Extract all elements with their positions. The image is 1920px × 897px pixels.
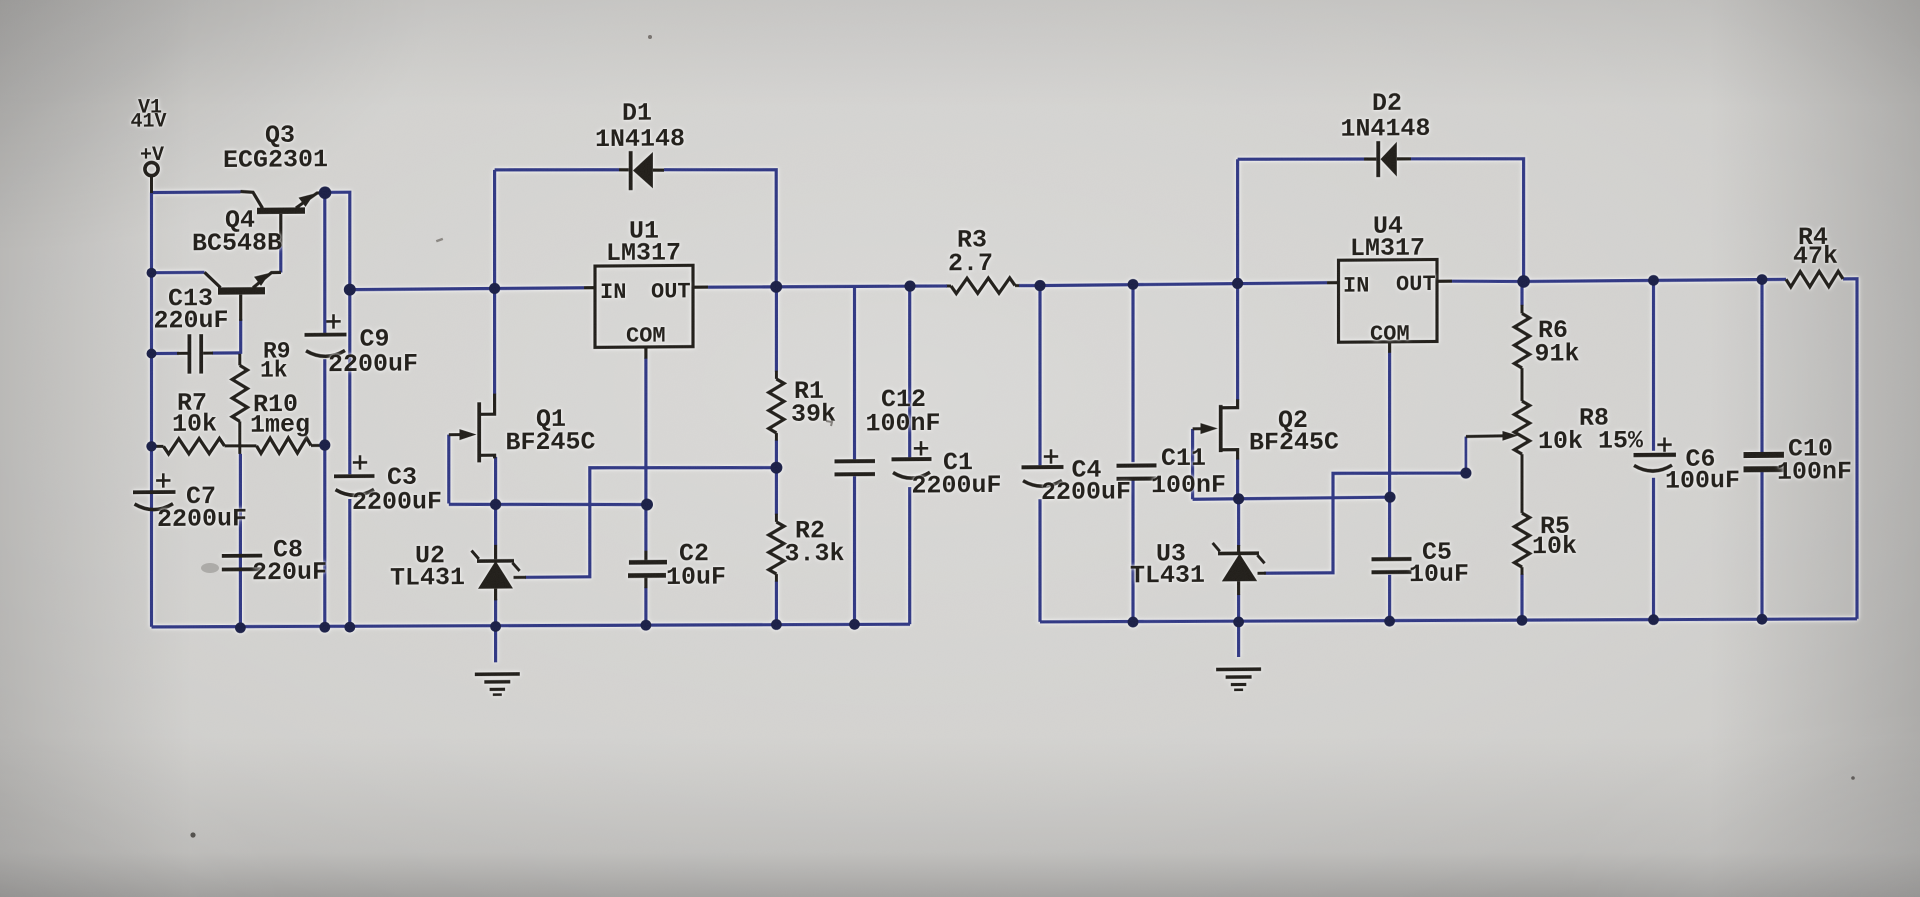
- wire R6 upper lead: [1520, 281, 1523, 305]
- capacitor C6 plate: [1634, 453, 1677, 458]
- wire Q2 source down: [1236, 459, 1239, 499]
- resistor R4 zigzag: [1786, 271, 1843, 287]
- potentiometer R8 wiper lead: [1466, 434, 1505, 438]
- transistor Q4 emitter lead: [253, 272, 281, 287]
- wire Q2 node to U3: [1237, 499, 1240, 546]
- diode D2 leads: [1364, 157, 1376, 160]
- resistor R9 zigzag: [232, 365, 247, 421]
- wire D1 top left: [495, 169, 619, 171]
- wire rail B R3 to U4 IN: [1038, 283, 1327, 286]
- resistor R6 stubs: [1521, 305, 1524, 314]
- wire bottom rail left stage: [152, 621, 911, 630]
- node D2 Q2 rail junction: [1232, 278, 1243, 289]
- transistor Q3 collector lead: [241, 191, 263, 208]
- shunt ref U2 wings: [472, 550, 479, 559]
- capacitor C13 plates: [188, 334, 192, 373]
- resistor R10 zigzag: [257, 438, 312, 454]
- shunt ref U2 ref lead: [514, 576, 527, 579]
- jfet Q1 drain lead: [480, 394, 495, 415]
- resistor R1 zigzag: [769, 379, 784, 433]
- node Q3 emitter junction: [319, 186, 332, 199]
- node bottom rail U3 ground: [1233, 616, 1244, 627]
- resistor R3 leads: [946, 284, 951, 287]
- node Q2 row COM junction: [1384, 491, 1395, 502]
- node C3 branch rail junction: [344, 284, 356, 296]
- wire U2 anode to rail/ground: [494, 599, 497, 663]
- shunt ref U2 TL431 cathode bar: [477, 559, 514, 563]
- wire R1 lower to R2 upper: [775, 440, 778, 515]
- wire D1 top right: [664, 169, 776, 288]
- ic U4 IN lead: [1327, 281, 1339, 284]
- wire C4 branch lower: [1038, 499, 1041, 622]
- capacitor C4 curved plate: [1023, 480, 1062, 486]
- wire R8 wiper riser: [1465, 437, 1468, 474]
- capacitor C1 curved plate: [893, 472, 930, 478]
- jfet Q2 source lead: [1220, 450, 1238, 460]
- jfet Q1 channel: [477, 402, 481, 462]
- node R8 wiper junction: [1460, 467, 1471, 478]
- capacitor C3 plate: [334, 474, 375, 478]
- diode D2 cathode bar: [1376, 141, 1380, 177]
- node bottom rail R5: [1517, 615, 1528, 626]
- wire C3 branch upper: [348, 290, 351, 475]
- capacitor C3 plus: [353, 461, 367, 464]
- wire R2 lower lead: [775, 581, 778, 625]
- resistor R6 zigzag: [1514, 313, 1529, 368]
- capacitor C12 plates: [835, 459, 876, 463]
- wire R1 upper lead: [775, 287, 778, 372]
- ic U1 OUT lead: [693, 285, 708, 288]
- dust speck top middle: [648, 35, 652, 39]
- wire R3 left lead: [912, 284, 947, 288]
- wire rail OUT to R4: [1524, 279, 1786, 281]
- node bottom rail C5: [1384, 616, 1395, 627]
- wire D2 left riser: [1236, 159, 1239, 283]
- wire Q2 source row to COM: [1193, 497, 1390, 499]
- ic U1 LM317 box: [595, 265, 693, 347]
- capacitor C1 plus: [914, 447, 928, 450]
- node Q1 source COM junction: [641, 499, 653, 511]
- capacitor C1 plate: [892, 457, 932, 461]
- wire U1 OUT rail to R3: [708, 286, 912, 288]
- wire node to C3 branch corner: [325, 192, 350, 290]
- wire C12 branch upper: [853, 286, 856, 459]
- resistor R1 stubs: [775, 371, 778, 379]
- node C11 rail junction: [1128, 279, 1139, 290]
- potentiometer R8 zigzag: [1514, 401, 1529, 454]
- terminal V1 +V: [145, 162, 158, 175]
- resistor R2 zigzag: [769, 522, 784, 574]
- node bottom rail C3 line: [344, 622, 355, 633]
- capacitor C10 plates: [1744, 452, 1785, 458]
- wire C11 branch upper: [1131, 284, 1134, 462]
- transistor Q4 emitter arrow: [254, 273, 270, 286]
- wire U3 ref run: [1264, 472, 1466, 573]
- wire Q4 base to C13/R9 node: [239, 319, 242, 354]
- wire left +V rail: [150, 193, 153, 627]
- node bottom rail C6: [1648, 614, 1659, 625]
- capacitor C9 curved plate: [306, 350, 345, 356]
- resistor R5 stubs: [1521, 454, 1524, 513]
- node bottom rail C2: [641, 620, 652, 631]
- capacitor C7 plate: [133, 490, 176, 494]
- jfet Q1 source lead: [480, 455, 495, 458]
- shunt ref U2 cathode stub: [494, 545, 497, 559]
- transistor Q3 emitter lead: [296, 193, 326, 208]
- node bottom rail C9 line: [319, 622, 330, 633]
- diode D1 cathode bar: [629, 151, 633, 190]
- wire Q1 gate: [447, 435, 450, 504]
- resistor R10 right lead: [311, 444, 325, 447]
- diode D1 leads: [619, 168, 629, 171]
- capacitor C7 curved plate: [135, 504, 174, 510]
- dust speck near C12 label: [826, 421, 832, 426]
- transistor Q3 base stub: [279, 214, 282, 248]
- shunt ref U2 triangle: [478, 561, 513, 589]
- jfet Q2 gate lead: [1193, 427, 1202, 430]
- node Q2 source junction: [1233, 493, 1244, 504]
- jfet Q1 gate lead: [449, 433, 461, 436]
- capacitor C5 plates: [1372, 557, 1412, 561]
- node R3 right junction: [1034, 280, 1045, 291]
- dust speck bottom left: [190, 832, 195, 837]
- wire C6 branch upper: [1652, 280, 1655, 450]
- wire U3 anode to rail/ground: [1237, 595, 1240, 658]
- wire R3 right lead: [1019, 284, 1038, 287]
- capacitor C2 stubs: [644, 551, 647, 560]
- wire R9 to C8 to bottom rail: [239, 454, 242, 628]
- shunt ref U2 anode stub: [494, 589, 497, 601]
- wire Q3 base to Q4 emitter: [279, 247, 282, 273]
- node R3 left junction: [904, 280, 915, 291]
- wire C10 branch lower: [1760, 472, 1763, 619]
- node bottom rail C11: [1128, 617, 1139, 628]
- wire Q2 drain from rail: [1236, 283, 1239, 400]
- capacitor C7 plus: [156, 479, 170, 482]
- capacitor C6 plus: [1657, 443, 1671, 446]
- wire U4 OUT: [1452, 281, 1524, 282]
- capacitor C9 plate: [305, 333, 347, 337]
- wire U4 COM to C5: [1388, 353, 1391, 558]
- node bottom rail U2 ground: [490, 621, 501, 632]
- ground symbol left: [475, 672, 520, 676]
- shunt ref U3 wings: [1213, 543, 1220, 552]
- ic U4 LM317 box: [1339, 259, 1438, 342]
- jfet Q2 drain lead: [1220, 399, 1238, 407]
- shunt ref U3 triangle: [1222, 553, 1257, 581]
- capacitor C8 plates: [222, 554, 262, 558]
- wire C1 branch upper: [908, 286, 911, 457]
- capacitor C9 plus: [326, 320, 340, 323]
- wire Q2 gate: [1191, 429, 1194, 499]
- wire main rail to U1 IN: [350, 288, 584, 290]
- jfet Q2 gate arrow: [1201, 423, 1218, 434]
- wire C1 branch lower: [908, 487, 911, 624]
- wire bottom rail right stage: [1040, 615, 1857, 625]
- wire C13 right lead to R9 node: [212, 351, 241, 354]
- jfet Q2 channel: [1219, 405, 1223, 452]
- wire V1 feed to Q3: [152, 190, 241, 194]
- ic U4 OUT lead: [1437, 280, 1452, 283]
- node bottom rail R2: [771, 619, 782, 630]
- wire C11 branch lower: [1131, 477, 1134, 622]
- capacitor C4 plus: [1044, 455, 1058, 458]
- wire R5 lower lead: [1520, 574, 1523, 621]
- node bottom rail C8: [235, 622, 246, 633]
- jfet Q1 gate arrow: [460, 429, 477, 440]
- resistor R7 leads: [152, 445, 164, 448]
- dust speck near Q3: [436, 238, 443, 243]
- resistor R7 zigzag: [164, 438, 225, 454]
- node R7 rail junction: [146, 441, 156, 451]
- transistor Q4 base stub: [239, 295, 242, 321]
- resistor R2 stubs: [775, 514, 778, 522]
- wire D2 top right: [1411, 158, 1524, 282]
- wire C13 left lead: [152, 352, 180, 355]
- resistor R5 zigzag: [1514, 513, 1529, 567]
- wire Q1 source to U2: [494, 457, 497, 546]
- ic U4 COM lead: [1388, 342, 1391, 353]
- ground symbol right: [1216, 667, 1261, 671]
- capacitor C3 curved plate: [336, 489, 375, 495]
- capacitor C11 plates: [1117, 463, 1157, 467]
- node R1 R2 divider junction: [770, 462, 782, 474]
- wire C2 to bottom rail: [644, 587, 647, 625]
- node C10 rail junction: [1757, 274, 1768, 285]
- capacitor C4 plate: [1022, 465, 1064, 469]
- wire C5 to bottom rail: [1388, 575, 1391, 621]
- smudge near C8: [201, 563, 219, 573]
- wire C4 branch upper: [1038, 286, 1041, 466]
- capacitor C6 curved plate: [1634, 465, 1672, 471]
- shunt ref U3 cathode bar: [1218, 551, 1259, 555]
- transistor Q3 base bar: [257, 207, 305, 214]
- wire U1 COM to C2: [644, 358, 647, 551]
- wire Q1 source row: [449, 503, 647, 506]
- shunt ref U3 cathode stub: [1237, 545, 1240, 552]
- wire R4 to right corner: [1843, 279, 1857, 619]
- dust speck bottom right: [1851, 776, 1855, 780]
- resistor R9 leads: [238, 354, 241, 366]
- diode D1 triangle: [633, 152, 653, 189]
- wire C12 branch lower: [853, 476, 856, 624]
- shunt ref U3 anode stub: [1237, 581, 1240, 595]
- potentiometer R8 wiper arrow: [1503, 431, 1519, 441]
- wire Q4 collector to rail: [152, 271, 205, 275]
- capacitor C2 plates: [629, 560, 667, 565]
- node Q1 source junction: [490, 499, 501, 510]
- wire node to C9 line: [323, 193, 326, 333]
- node R10 C9-line junction: [319, 439, 330, 450]
- diode D2 triangle: [1381, 142, 1397, 177]
- transistor Q4 base bar: [218, 287, 265, 295]
- ic U1 IN lead: [584, 286, 595, 289]
- transistor Q3 emitter arrow: [299, 193, 315, 206]
- shunt ref U3 ref lead: [1258, 572, 1267, 575]
- node C6 rail junction: [1648, 275, 1659, 286]
- node Q4 collector rail junction: [147, 268, 157, 278]
- wire D2 top left: [1238, 158, 1364, 160]
- resistor R3 zigzag: [951, 278, 1015, 294]
- transistor Q4 collector lead: [205, 272, 221, 288]
- wire U2 ref run: [525, 466, 777, 577]
- node U1 OUT rail junction: [770, 281, 782, 293]
- node C13 rail junction: [147, 349, 157, 359]
- capacitor C13 leads: [177, 352, 188, 355]
- wire D1 branch: [493, 170, 496, 394]
- wire C10 branch upper: [1760, 280, 1763, 453]
- wire C6 branch lower: [1652, 478, 1655, 620]
- node bottom rail C10: [1757, 614, 1768, 625]
- ic U1 COM lead: [644, 347, 647, 359]
- node D1 drain rail junction: [489, 283, 500, 294]
- node bottom rail C12: [849, 619, 860, 630]
- wire C9 to R10 node to bottom rail: [323, 359, 326, 627]
- node U4 OUT rail junction: [1517, 275, 1530, 288]
- wire C3 branch lower: [348, 499, 351, 627]
